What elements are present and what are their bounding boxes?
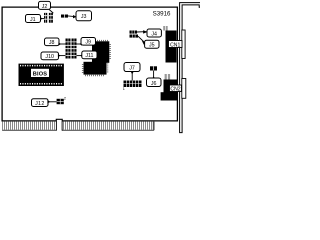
svg-text:J4: J4 xyxy=(151,31,157,37)
svg-text:2: 2 xyxy=(64,97,66,101)
label box J6 (with pointer tail) xyxy=(147,76,162,87)
svg-text:J12: J12 xyxy=(35,101,44,107)
memory chip U2 (lower body) xyxy=(83,55,108,76)
svg-text:CN1: CN1 xyxy=(170,42,180,48)
callout line from J1 label to jumper xyxy=(41,18,45,20)
edge connector fingers (right segment) xyxy=(62,121,154,130)
connector key notch outline xyxy=(56,119,62,130)
label box J3 (with pointer tail) xyxy=(73,11,92,21)
callout line J8 xyxy=(59,43,66,45)
callout line from J2 label to jumper xyxy=(49,10,53,14)
label box J9 (with pointer tail) xyxy=(79,38,95,46)
svg-text:S3916: S3916 xyxy=(153,10,171,17)
callout line J6 xyxy=(153,71,155,79)
jumper J4 (3-pin header) xyxy=(130,31,138,34)
jumper block J7 (2x6 header) xyxy=(124,81,142,88)
label box J12 (with pointer tail) xyxy=(32,99,51,107)
label box J8 (with pointer tail) xyxy=(45,38,62,46)
svg-text:J2: J2 xyxy=(42,4,48,10)
jumper block J9/J11 (right pin strip) xyxy=(72,39,77,59)
svg-text:J10: J10 xyxy=(45,54,54,60)
BIOS label box xyxy=(31,69,49,78)
jumper J3 (2-pin) xyxy=(61,15,68,18)
svg-text:J5: J5 xyxy=(149,43,155,49)
callout line J10 xyxy=(59,55,66,57)
video chip U1 (large QFP, upper body) xyxy=(92,41,110,63)
connector CN2 body xyxy=(161,80,178,101)
callout line J11 xyxy=(77,55,82,57)
callout line J4 xyxy=(137,31,145,33)
svg-text:J6: J6 xyxy=(151,81,157,87)
label box J10 (with pointer tail) xyxy=(41,52,61,60)
label box J5 (with pointer tail) xyxy=(142,40,159,48)
connector CN1 pins xyxy=(163,26,168,31)
connector CN2 external shell xyxy=(182,79,186,99)
label box J1 (with pointer tail) xyxy=(26,15,43,24)
svg-text:J8: J8 xyxy=(49,40,55,46)
board outline (PCB edge) xyxy=(2,7,177,121)
connector CN1 body xyxy=(166,31,177,63)
svg-text:J7: J7 xyxy=(129,66,135,72)
callout line J12 xyxy=(50,101,57,103)
BIOS ROM chip xyxy=(19,64,64,86)
label box CN2 xyxy=(170,85,182,93)
svg-text:BIOS: BIOS xyxy=(33,72,48,78)
label box CN1 xyxy=(169,41,183,49)
label box J4 (with pointer tail) xyxy=(143,29,161,37)
metal mounting bracket xyxy=(180,3,201,133)
svg-text:J9: J9 xyxy=(85,40,91,46)
label box J11 (with pointer tail) xyxy=(80,51,97,59)
svg-text:J1: J1 xyxy=(30,17,36,23)
connector CN1 external shell xyxy=(182,30,185,59)
label box J2 xyxy=(39,1,51,10)
callout line J9 xyxy=(77,43,82,45)
jumper block J1 (left pin strip) xyxy=(44,13,47,23)
callout line J7 xyxy=(131,72,133,81)
svg-text:J3: J3 xyxy=(81,14,87,20)
edge connector fingers (left segment) xyxy=(2,121,56,130)
jumper block J12 (2x2) xyxy=(57,99,64,104)
callout line from J3 jumper to label xyxy=(68,15,75,18)
jumper block J2 (right pin strip) xyxy=(49,13,53,23)
svg-text:1: 1 xyxy=(123,87,125,91)
jumper J6 (2-pin) xyxy=(150,66,157,70)
jumper J5 (3-pin header) xyxy=(130,35,139,38)
callout line J5 xyxy=(138,36,145,42)
connector CN2 pins xyxy=(165,74,170,80)
label box J7 (with pointer tail) xyxy=(124,63,140,75)
svg-text:J11: J11 xyxy=(85,53,93,59)
jumper block J8/J10 (left pin strip) xyxy=(66,39,71,59)
svg-text:CN2: CN2 xyxy=(170,87,180,93)
